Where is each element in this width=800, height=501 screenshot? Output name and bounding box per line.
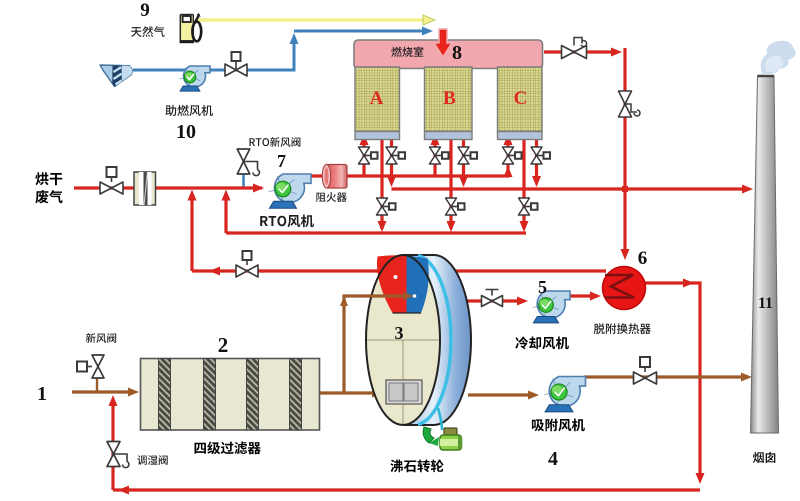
label tian-ran-qi (natural gas) <box>131 26 165 37</box>
wire tower C inlet pipe <box>506 142 509 168</box>
svg-text:4: 4 <box>548 448 558 470</box>
valve chamber exit <box>562 46 587 59</box>
svg-text:11: 11 <box>758 295 773 312</box>
svg-text:A: A <box>370 88 384 109</box>
valve tower A purge <box>377 198 388 215</box>
valve tower B outlet <box>458 147 469 164</box>
wire chamber exit line y=52 <box>544 48 625 256</box>
svg-text:2: 2 <box>218 333 229 357</box>
label zu-huo-qi (flame arrester) <box>316 192 346 202</box>
wire tower C outlet pipe <box>535 138 538 183</box>
wire exhaust header y=189 <box>392 187 747 190</box>
RTO combustion chamber <box>354 40 543 69</box>
label fei-shi-zhuan-lun (zeolite rotor) <box>390 460 443 473</box>
RTO tower C <box>498 67 543 140</box>
valve tower B inlet <box>430 147 441 164</box>
wire tower A inlet pipe <box>362 142 365 176</box>
wire cooling-fan outlet y=296 <box>563 294 594 297</box>
label zhu-ran-feng-ji (combustion fan) <box>165 105 212 116</box>
wire branch riser x=192 <box>190 195 193 271</box>
rotor drive motor <box>423 408 462 450</box>
wire fresh-air line (brown) <box>72 390 132 393</box>
valve tower C purge <box>519 198 530 215</box>
wire combustion air line (blue) <box>133 40 294 70</box>
wire tower A outlet pipe <box>390 138 393 183</box>
label hong-gan-fei-qi (waste gas) <box>35 172 62 185</box>
label tuo-fu-huan-re-qi (desorption HX) <box>594 323 651 334</box>
svg-text:B: B <box>443 88 456 109</box>
svg-text:7: 7 <box>277 151 286 171</box>
waste-gas pre-filter <box>134 172 156 205</box>
wire tower B outlet pipe <box>462 138 465 183</box>
wire fresh-air valve stub <box>96 378 98 392</box>
junction dot <box>622 186 628 192</box>
desorption heat exchanger <box>603 267 646 310</box>
wire natural gas line (yellow) <box>197 18 424 22</box>
combustion fan (zhu-ran fan) <box>184 66 210 87</box>
wire filter outlet line (brown) <box>320 391 376 394</box>
wire main waste-gas line <box>74 186 262 189</box>
zeolite rotor drum <box>366 255 471 425</box>
RTO tower A <box>355 67 400 140</box>
valve tower C outlet <box>531 147 542 164</box>
wire RTO fresh-air stub (blue) <box>242 150 245 188</box>
valve humidity (tiao shi fa) <box>107 442 120 467</box>
valve cooling-fan inlet <box>482 296 503 307</box>
valve RTO fresh-air <box>237 149 250 174</box>
label yan-cong (chimney) <box>753 452 775 463</box>
svg-text:8: 8 <box>452 42 462 64</box>
label leng-que-feng-ji (cooling fan) <box>515 337 569 350</box>
wire tower B inlet pipe <box>433 142 436 176</box>
gas pump (natural gas source) <box>180 13 202 43</box>
wire tower C purge pipe <box>522 138 525 229</box>
intake silencer (combustion air) <box>100 65 133 87</box>
svg-text:3: 3 <box>395 323 404 343</box>
wire adsorption outlet (brown) <box>584 375 745 378</box>
wire purge header y=233 <box>226 231 526 234</box>
label RTO fan <box>260 215 314 228</box>
RTO tower B <box>425 67 473 140</box>
valve combustion air <box>225 64 247 76</box>
wire desorb inlet arrow (brown, over rotor) <box>366 294 404 297</box>
wire HX outlet to bottom return <box>645 283 700 478</box>
valve tower C inlet <box>503 147 514 164</box>
wire bottom return y=490 <box>113 488 700 491</box>
valve fresh-air (xin feng fa) <box>92 355 104 378</box>
burner arrow (into chamber) <box>434 29 452 57</box>
chimney <box>751 41 796 433</box>
label ran-shao-shi (combustion chamber) <box>391 47 423 57</box>
wire RTO inlet header y=176 <box>305 168 508 176</box>
wire tower A purge pipe <box>380 138 383 229</box>
wire tower B purge pipe <box>449 138 452 229</box>
valve adsorption outlet <box>634 372 657 384</box>
cooling fan <box>537 291 570 318</box>
valve waste-gas inlet <box>100 182 123 194</box>
label RTO fresh-air valve <box>250 137 301 147</box>
svg-text:5: 5 <box>538 277 547 297</box>
wire rotor to adsorption-fan (brown) <box>468 393 531 396</box>
svg-text:10: 10 <box>176 121 196 143</box>
svg-text:1: 1 <box>37 383 47 405</box>
RTO fan <box>274 174 311 203</box>
valve desorb supply <box>236 265 258 277</box>
label tiao-shi-fa (humidity valve) <box>137 455 167 465</box>
wire branch riser x=226 <box>224 195 227 233</box>
svg-text:9: 9 <box>140 0 150 21</box>
label xin-feng-fa (fresh air valve) <box>86 333 116 343</box>
wire desorb branch (brown) <box>344 296 404 393</box>
wire desorb supply line y=271 <box>192 269 606 272</box>
valve tower A outlet <box>386 147 397 164</box>
wire rotor to cooling-fan line y=301 <box>455 299 520 302</box>
svg-text:C: C <box>514 88 528 109</box>
adsorption fan <box>549 377 585 407</box>
label xi-fu-feng-ji (adsorption fan) <box>532 419 585 432</box>
valve tower A inlet <box>359 147 370 164</box>
svg-text:6: 6 <box>638 248 648 269</box>
valve bypass vertical <box>619 91 632 117</box>
label si-ji-guo-lv-qi (four-stage filter) <box>195 441 261 454</box>
flame arrester <box>322 164 347 188</box>
four-stage filter <box>141 359 320 431</box>
wire humidity-valve riser x=113 <box>111 400 114 490</box>
valve tower B purge <box>446 198 457 215</box>
